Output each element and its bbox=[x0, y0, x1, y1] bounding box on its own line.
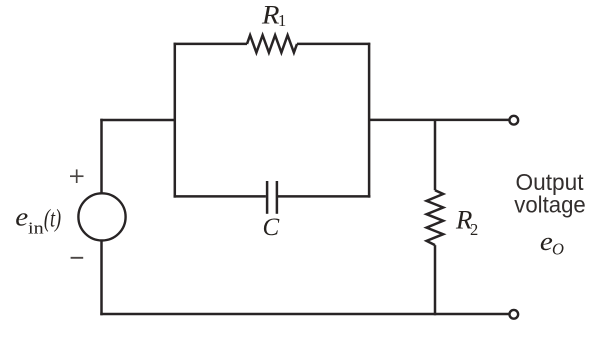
svg-text:C: C bbox=[263, 214, 280, 241]
label e_in(t) bbox=[15, 203, 61, 237]
svg-text:(t): (t) bbox=[44, 205, 61, 232]
wire: box bottom-left segment to capacitor bbox=[174, 195, 266, 198]
label e_O bbox=[540, 227, 564, 259]
resistor R1 zigzag bbox=[247, 35, 297, 52]
label R2 bbox=[455, 205, 478, 239]
label Output voltage bbox=[514, 169, 586, 218]
wire: R1 to box top-right segment bbox=[297, 43, 370, 46]
svg-text:e: e bbox=[15, 203, 28, 232]
svg-text:voltage: voltage bbox=[514, 192, 586, 218]
wire: R2 bottom lead to bottom rail bbox=[434, 245, 437, 315]
wire: capacitor to box bottom-right segment bbox=[278, 195, 370, 198]
wire: node B horizontal, box right to output terminal bbox=[369, 119, 509, 122]
wire: box top-left segment to R1 bbox=[174, 43, 248, 46]
svg-text:in: in bbox=[28, 219, 44, 237]
capacitor C left plate bbox=[266, 181, 269, 214]
wire: bottom rail bbox=[100, 313, 509, 316]
minus sign of source polarity bbox=[71, 257, 84, 259]
wire: parallel box left vertical bbox=[174, 43, 177, 198]
svg-text:e: e bbox=[540, 227, 553, 256]
output terminal top bbox=[509, 116, 518, 125]
voltage source e_in circle bbox=[78, 193, 125, 240]
output terminal bottom bbox=[509, 310, 518, 319]
svg-text:O: O bbox=[552, 240, 564, 259]
svg-text:R: R bbox=[261, 0, 280, 29]
wire: left branch top vertical from node A to source bbox=[100, 119, 103, 194]
plus sign of source polarity bbox=[70, 169, 84, 183]
svg-text:2: 2 bbox=[470, 220, 478, 239]
resistor R2 zigzag bbox=[427, 190, 444, 245]
wire: parallel box right vertical bbox=[368, 43, 371, 198]
wire: source bottom to bottom rail bbox=[100, 240, 103, 315]
wire: node A horizontal, source to parallel box left bbox=[100, 119, 174, 122]
wire: R2 top lead from node B bbox=[434, 120, 437, 190]
svg-text:1: 1 bbox=[278, 11, 286, 30]
capacitor C right plate bbox=[276, 181, 279, 214]
label R1 bbox=[261, 0, 286, 29]
